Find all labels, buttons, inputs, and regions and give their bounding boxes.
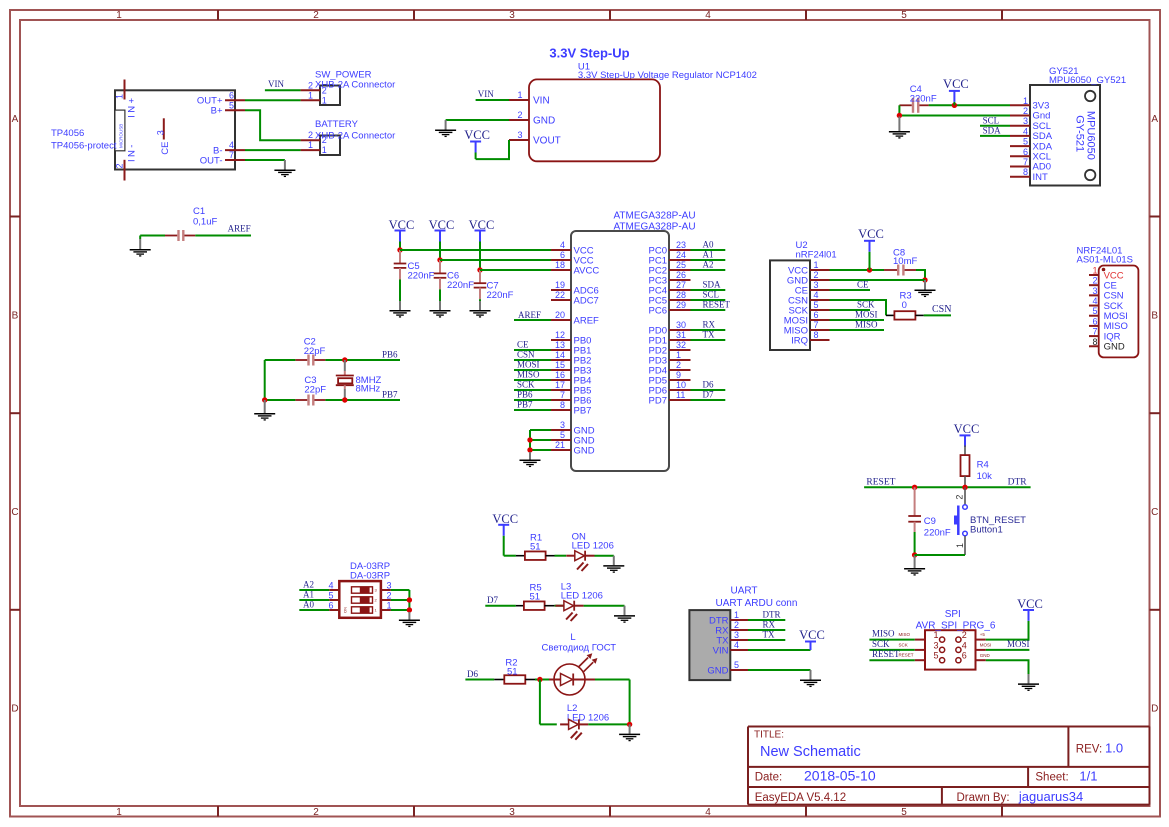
svg-text:PB6: PB6 [382,349,398,359]
svg-text:2: 2 [114,163,124,168]
svg-text:2: 2 [308,130,313,140]
svg-text:nRF24l01: nRF24l01 [796,250,837,261]
svg-text:4: 4 [734,640,739,650]
svg-text:22pF: 22pF [304,385,326,396]
svg-text:13: 13 [555,340,565,350]
svg-text:12: 12 [555,330,565,340]
svg-text:4: 4 [814,290,819,300]
svg-text:5: 5 [328,591,333,601]
svg-text:D7: D7 [487,595,498,605]
svg-text:A1: A1 [303,590,314,600]
svg-text:PB7: PB7 [517,400,533,410]
svg-text:CE: CE [857,280,869,290]
svg-text:5: 5 [560,430,565,440]
svg-text:4: 4 [560,240,565,250]
svg-text:CE: CE [160,141,171,154]
svg-text:PC6: PC6 [649,305,667,316]
svg-text:A: A [12,114,19,125]
svg-text:LED 1206: LED 1206 [561,591,603,602]
svg-text:Button1: Button1 [970,524,1003,535]
svg-text:DTR: DTR [1008,478,1028,488]
svg-text:D7: D7 [703,390,714,400]
svg-text:10: 10 [676,380,686,390]
svg-text:8MHz: 8MHz [356,383,381,394]
svg-text:9: 9 [676,370,681,380]
svg-text:4: 4 [962,640,967,650]
svg-text:RESET: RESET [899,653,914,658]
svg-text:A2: A2 [303,580,314,590]
svg-text:1.0: 1.0 [1105,740,1123,755]
svg-text:AREF: AREF [574,315,600,326]
svg-text:C: C [1151,507,1158,518]
svg-text:MISO: MISO [872,629,895,639]
svg-text:ATMEGA328P-AU: ATMEGA328P-AU [614,211,696,222]
svg-text:2: 2 [814,270,819,280]
svg-text:DTR: DTR [763,609,781,619]
svg-text:3: 3 [1023,116,1028,126]
svg-text:3.3V Step-Up: 3.3V Step-Up [549,46,629,61]
svg-text:3: 3 [734,630,739,640]
svg-text:VCC: VCC [464,128,490,142]
svg-text:8: 8 [1023,167,1028,177]
svg-text:A0: A0 [303,600,314,610]
svg-text:6: 6 [1023,147,1028,157]
svg-text:RX: RX [703,320,716,330]
svg-text:VOUT: VOUT [533,135,561,146]
svg-text:18: 18 [555,260,565,270]
svg-text:1: 1 [116,807,122,818]
svg-text:TP4056-protect: TP4056-protect [51,141,117,152]
svg-text:2: 2 [962,630,967,640]
svg-text:REV:: REV: [1076,743,1102,755]
svg-text:20: 20 [555,310,565,320]
svg-text:1: 1 [116,10,122,21]
svg-text:BATTERY: BATTERY [315,119,359,130]
svg-text:AREF: AREF [228,224,251,234]
svg-text:GND: GND [1104,342,1125,353]
svg-text:29: 29 [676,300,686,310]
svg-text:ADC7: ADC7 [574,295,599,306]
svg-text:SCK: SCK [517,380,535,390]
svg-text:MISO: MISO [855,320,878,330]
svg-text:11: 11 [676,390,685,400]
svg-text:PD7: PD7 [649,395,667,406]
svg-text:6: 6 [229,90,234,100]
svg-text:3: 3 [1093,286,1098,296]
svg-text:GND: GND [707,665,728,676]
svg-text:RESET: RESET [703,300,731,310]
svg-text:7: 7 [229,150,234,160]
svg-text:B: B [12,311,19,322]
svg-text:PB7: PB7 [574,405,592,416]
svg-text:6: 6 [1093,316,1098,326]
svg-text:VIN: VIN [713,645,729,656]
svg-text:3: 3 [387,581,392,591]
svg-text:D6: D6 [467,669,478,679]
svg-text:2: 2 [517,110,522,120]
svg-text:GY-521: GY-521 [1074,115,1086,152]
svg-text:25: 25 [676,260,686,270]
svg-text:3: 3 [509,807,515,818]
svg-text:A2: A2 [703,260,714,270]
svg-text:22: 22 [555,290,565,300]
svg-text:TITLE:: TITLE: [754,730,784,741]
svg-text:B: B [1151,311,1158,322]
svg-text:220nF: 220nF [910,94,937,105]
svg-text:5: 5 [229,100,234,110]
svg-text:UART ARDU conn: UART ARDU conn [716,598,798,609]
svg-text:2: 2 [734,620,739,630]
svg-text:MICROUSB: MICROUSB [118,124,123,148]
svg-text:TP4056: TP4056 [51,128,84,139]
svg-text:SDA: SDA [983,126,1002,136]
svg-text:EasyEDA V5.4.12: EasyEDA V5.4.12 [755,792,846,804]
svg-text:CSN: CSN [517,350,535,360]
svg-text:Светодиод ГОСТ: Светодиод ГОСТ [542,643,617,654]
svg-text:1: 1 [322,145,327,155]
svg-text:1: 1 [1023,96,1028,106]
svg-text:SCL: SCL [703,290,720,300]
svg-text:RX: RX [763,619,776,629]
svg-text:3: 3 [814,280,819,290]
svg-text:GND: GND [574,445,595,456]
svg-text:VCC: VCC [799,628,825,642]
svg-text:MOSI: MOSI [517,360,540,370]
svg-text:7: 7 [814,320,819,330]
svg-text:3: 3 [517,130,522,140]
svg-text:10mF: 10mF [893,256,917,267]
svg-text:51: 51 [530,592,541,603]
svg-text:+5: +5 [980,632,986,637]
svg-text:OUT-: OUT- [200,155,223,166]
svg-text:7: 7 [1023,157,1028,167]
svg-text:MISO: MISO [899,632,911,637]
svg-text:AVCC: AVCC [574,265,600,276]
svg-text:D: D [1151,704,1158,715]
svg-text:1: 1 [322,95,327,105]
svg-text:10k: 10k [977,471,993,482]
svg-text:SCK: SCK [857,300,875,310]
svg-text:15: 15 [555,360,565,370]
svg-text:4: 4 [1093,296,1098,306]
svg-text:3: 3 [933,640,938,650]
svg-text:7: 7 [560,390,565,400]
svg-text:PB7: PB7 [382,389,398,399]
svg-text:New Schematic: New Schematic [760,744,861,760]
svg-text:PB6: PB6 [517,390,533,400]
svg-text:AVR_SPI_PRG_6: AVR_SPI_PRG_6 [916,620,996,631]
svg-text:GND: GND [980,653,991,658]
svg-text:VIN: VIN [268,79,284,89]
svg-text:SCL: SCL [983,115,1000,125]
svg-text:MOSI: MOSI [980,643,992,648]
svg-text:XHB-2A Connector: XHB-2A Connector [315,80,395,91]
svg-text:1: 1 [814,260,819,270]
svg-text:17: 17 [555,380,565,390]
svg-text:32: 32 [676,340,686,350]
svg-text:8: 8 [1093,337,1098,347]
svg-text:1: 1 [308,90,313,100]
svg-text:ON: ON [343,607,348,613]
svg-text:8: 8 [814,330,819,340]
svg-text:TX: TX [703,330,715,340]
svg-text:4: 4 [1023,126,1028,136]
svg-text:INT: INT [1033,172,1049,183]
svg-text:6: 6 [962,651,967,661]
svg-text:28: 28 [676,290,686,300]
svg-text:2: 2 [676,360,681,370]
svg-text:1: 1 [734,610,739,620]
svg-text:2: 2 [322,135,327,145]
svg-text:6: 6 [328,601,333,611]
svg-text:22pF: 22pF [304,346,326,357]
svg-text:VIN: VIN [533,95,550,106]
svg-text:MPU6050_GY521: MPU6050_GY521 [1049,75,1126,86]
svg-text:1/1: 1/1 [1079,768,1097,783]
svg-text:2: 2 [1093,276,1098,286]
svg-text:5: 5 [1093,306,1098,316]
svg-text:A: A [1151,114,1158,125]
svg-text:14: 14 [555,350,565,360]
svg-text:7: 7 [1093,327,1098,337]
svg-text:51: 51 [530,542,541,553]
svg-text:AS01-ML01S: AS01-ML01S [1077,254,1134,265]
svg-text:1: 1 [387,601,392,611]
svg-text:31: 31 [676,330,686,340]
svg-text:2: 2 [308,80,313,90]
svg-text:SPI: SPI [945,609,961,620]
svg-text:MISO: MISO [517,370,540,380]
svg-text:GND: GND [533,115,555,126]
svg-text:4: 4 [705,10,711,21]
svg-text:3: 3 [156,130,166,135]
svg-text:0,1uF: 0,1uF [193,217,217,228]
svg-text:23: 23 [676,240,686,250]
svg-text:Date:: Date: [755,771,783,783]
svg-text:CE: CE [517,340,529,350]
svg-text:1: 1 [933,630,938,640]
svg-text:LED 1206: LED 1206 [572,541,614,552]
svg-text:XHB-2A Connector: XHB-2A Connector [315,131,395,142]
svg-text:5: 5 [814,300,819,310]
svg-text:4: 4 [229,140,234,150]
svg-text:A0: A0 [703,240,714,250]
svg-text:1: 1 [308,140,313,150]
svg-text:AREF: AREF [518,310,541,320]
svg-text:2: 2 [954,495,964,500]
svg-text:220nF: 220nF [447,280,474,291]
svg-text:MOSI: MOSI [1007,639,1030,649]
svg-text:MOSI: MOSI [855,310,878,320]
svg-text:1: 1 [517,90,522,100]
svg-text:2: 2 [313,807,319,818]
svg-text:VCC: VCC [954,422,980,436]
svg-text:TX: TX [763,629,775,639]
svg-text:RESET: RESET [872,649,900,659]
svg-text:30: 30 [676,320,686,330]
svg-text:2: 2 [322,85,327,95]
svg-text:51: 51 [507,667,518,678]
svg-text:SDA: SDA [703,280,722,290]
svg-text:D6: D6 [703,380,714,390]
svg-text:24: 24 [676,250,686,260]
svg-text:A1: A1 [703,250,714,260]
svg-text:CSN: CSN [932,304,951,315]
svg-text:1: 1 [114,94,124,99]
svg-text:5: 5 [901,10,907,21]
svg-text:2018-05-10: 2018-05-10 [804,767,876,783]
svg-text:Drawn By:: Drawn By: [957,792,1010,804]
svg-text:B+: B+ [211,106,223,117]
svg-text:5: 5 [901,807,907,818]
svg-text:3: 3 [509,10,515,21]
svg-text:5: 5 [933,651,938,661]
svg-text:2: 2 [313,10,319,21]
svg-text:SCK: SCK [899,642,908,647]
svg-text:220nF: 220nF [924,528,951,539]
svg-text:C: C [11,507,18,518]
svg-text:D: D [11,704,18,715]
svg-text:26: 26 [676,270,686,280]
svg-text:RESET: RESET [866,478,895,488]
svg-text:21: 21 [555,440,565,450]
svg-text:4: 4 [705,807,711,818]
svg-text:R4: R4 [977,460,989,471]
svg-text:VCC: VCC [858,227,884,241]
svg-text:16: 16 [555,370,565,380]
svg-text:SCK: SCK [872,639,890,649]
svg-text:8: 8 [560,400,565,410]
svg-text:220nF: 220nF [408,270,435,281]
svg-text:19: 19 [555,280,565,290]
svg-text:L: L [570,632,575,643]
svg-text:2: 2 [387,591,392,601]
svg-text:VIN: VIN [478,89,494,99]
svg-text:IRQ: IRQ [791,335,808,346]
svg-text:6: 6 [814,310,819,320]
svg-text:jaguarus34: jaguarus34 [1018,789,1083,804]
svg-text:2: 2 [1023,106,1028,116]
svg-text:0: 0 [902,300,907,311]
svg-text:4: 4 [328,581,333,591]
svg-text:C9: C9 [924,516,936,527]
svg-text:3: 3 [560,420,565,430]
svg-text:1: 1 [1093,266,1098,276]
svg-text:1: 1 [676,350,681,360]
svg-text:6: 6 [560,250,565,260]
svg-text:Sheet:: Sheet: [1035,771,1068,783]
svg-text:5: 5 [1023,137,1028,147]
svg-text:27: 27 [676,280,686,290]
svg-text:220nF: 220nF [487,290,514,301]
svg-text:C1: C1 [193,206,205,217]
svg-text:IN+: IN+ [127,96,138,118]
svg-text:IN-: IN- [127,142,138,162]
svg-text:VCC: VCC [943,77,969,91]
svg-text:5: 5 [734,660,739,670]
svg-text:VCC: VCC [1017,597,1043,611]
svg-text:1: 1 [955,543,965,548]
svg-text:UART: UART [731,586,758,597]
